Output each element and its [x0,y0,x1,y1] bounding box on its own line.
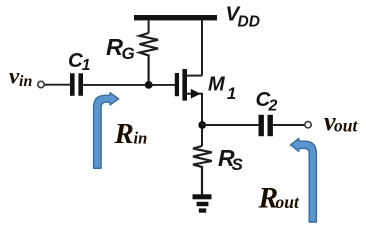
svg-text:S: S [232,155,244,174]
svg-text:in: in [134,129,148,148]
svg-text:DD: DD [238,13,260,30]
svg-text:M: M [208,74,226,96]
svg-text:out: out [276,192,300,212]
svg-text:R: R [106,34,123,60]
svg-text:2: 2 [268,98,278,115]
svg-text:out: out [334,115,358,135]
svg-text:1: 1 [82,57,91,74]
svg-text:G: G [122,44,135,63]
svg-text:in: in [19,73,32,90]
svg-text:1: 1 [227,85,236,103]
svg-text:R: R [114,118,134,150]
